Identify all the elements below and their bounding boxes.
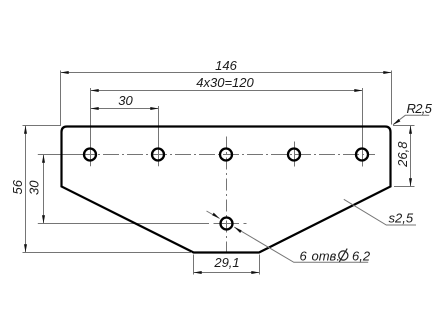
centerline vertical hole 2 / extension to dim 30 xyxy=(158,106,160,166)
plate outline xyxy=(62,127,391,253)
dimension 30 left arrows xyxy=(42,155,45,224)
svg-text:4x30=120: 4x30=120 xyxy=(196,75,254,90)
svg-text:6,2: 6,2 xyxy=(352,249,371,264)
extension line top-left corner left xyxy=(23,125,62,127)
dimension 56 line xyxy=(25,126,27,253)
hole 3 xyxy=(220,149,232,161)
extension line 26,8 top xyxy=(393,125,415,127)
hole 2 xyxy=(152,149,164,161)
extension line 26,8 bottom xyxy=(394,186,415,188)
dimension 146 arrows xyxy=(61,71,392,74)
dimension 29,1 arrows xyxy=(194,271,260,274)
extension line bottom edge left xyxy=(23,252,193,254)
leader R2,5 xyxy=(393,115,429,124)
extension line 29,1 right xyxy=(259,255,261,275)
centerline horizontal through top holes xyxy=(38,154,79,156)
leader 6 holes: lower segment with arrow and shelf xyxy=(234,227,368,262)
extension line left edge up xyxy=(60,71,62,126)
hole 5 xyxy=(356,149,368,161)
dimension 26,8 line xyxy=(410,126,412,187)
svg-text:30: 30 xyxy=(26,180,41,195)
diameter symbol xyxy=(339,251,348,260)
extension line right edge up xyxy=(391,71,393,125)
dimension 29,1 line xyxy=(194,272,260,274)
centerline horizontal through hole 6 xyxy=(38,223,209,225)
centerline vertical hole 5 / extension to dim xyxy=(362,88,364,167)
dimension 146 line xyxy=(61,72,392,74)
centerline vertical hole 1 / extension to dims xyxy=(90,88,92,166)
dimension 4x30=120 line xyxy=(91,90,363,92)
hole 1 xyxy=(84,149,96,161)
svg-text:30: 30 xyxy=(118,93,133,108)
dimension 4x30=120 arrows xyxy=(91,89,363,92)
dimension 30 top line xyxy=(91,108,159,110)
centerline vertical through hole 3 and hole 6 xyxy=(226,137,228,256)
centerline vertical hole 4 xyxy=(294,142,296,167)
extension line 29,1 left xyxy=(193,255,195,275)
leader 6 holes: upper segment with arrow xyxy=(207,211,220,219)
hole 6 center xyxy=(221,218,233,230)
svg-text:R2,5: R2,5 xyxy=(407,101,433,116)
svg-text:s2,5: s2,5 xyxy=(389,211,414,226)
svg-text:56: 56 xyxy=(10,179,25,194)
leader R2,5 arrow xyxy=(393,119,400,125)
dimension 30 left line xyxy=(43,155,45,224)
dimension 30 top arrows xyxy=(91,107,159,110)
svg-text:29,1: 29,1 xyxy=(213,255,239,270)
hole 4 xyxy=(288,149,300,161)
dimension 26,8 arrows xyxy=(409,126,412,187)
svg-text:отв.: отв. xyxy=(312,249,340,264)
svg-text:6: 6 xyxy=(300,249,308,264)
dimension 56 arrows xyxy=(24,126,27,253)
svg-text:146: 146 xyxy=(215,58,237,73)
svg-text:26,8: 26,8 xyxy=(395,141,410,168)
leader s2,5 xyxy=(344,199,416,225)
